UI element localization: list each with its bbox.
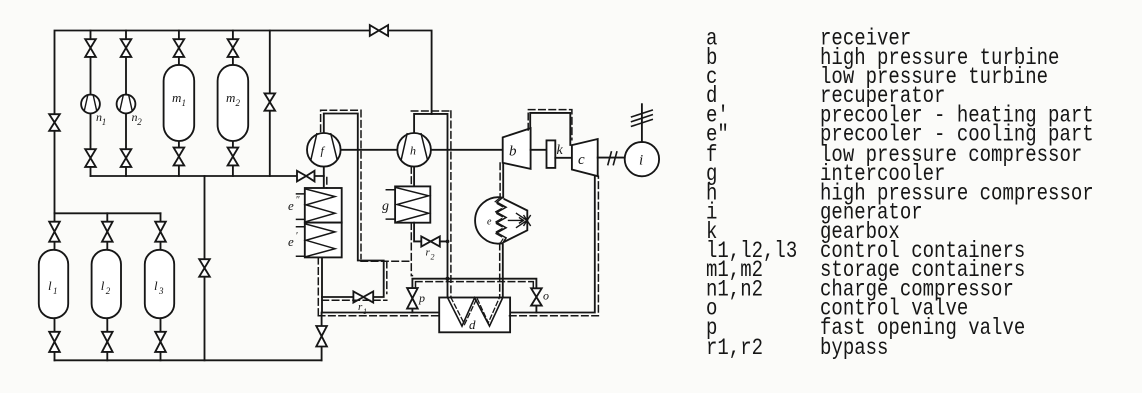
coupling ticks bbox=[608, 152, 617, 165]
valve n1 bottom bbox=[85, 149, 96, 158]
svg-text:2: 2 bbox=[431, 253, 435, 262]
valve l1 bottom bbox=[49, 332, 60, 342]
wire: storage manifold to f inlet bbox=[91, 175, 324, 177]
wire: l1 column bbox=[54, 213, 56, 360]
wire: exhaust line right of recuperator and c downcomer bbox=[510, 176, 595, 312]
svg-text:i: i bbox=[639, 153, 643, 169]
dashed beside h downpipe bbox=[410, 167, 412, 187]
valve on third riser bbox=[265, 93, 276, 102]
wire: m1 column bbox=[178, 31, 180, 177]
e spray symbol bbox=[509, 213, 531, 227]
high pressure compressor h bbox=[397, 133, 431, 167]
valve on left riser bbox=[49, 114, 60, 122]
valve at f inlet bbox=[297, 171, 306, 182]
dashed stub under f inlet bbox=[326, 178, 328, 189]
svg-text:l: l bbox=[48, 278, 52, 293]
wire: bypass r1 line bbox=[322, 114, 384, 298]
wire: bottom manifold bbox=[55, 359, 322, 361]
svg-text:1: 1 bbox=[363, 307, 367, 316]
recuperator d bbox=[439, 298, 510, 333]
valve l2 bottom bbox=[102, 332, 113, 342]
dashed beside b downpipe bbox=[499, 163, 501, 198]
valve n2 top bbox=[121, 39, 132, 48]
svg-text:g: g bbox=[382, 199, 389, 214]
e spray funnel bbox=[505, 199, 528, 242]
charge compressor n1 bbox=[81, 95, 100, 114]
svg-text:m: m bbox=[226, 90, 235, 105]
valve n2 bottom bbox=[121, 149, 132, 158]
e internal zigzag bbox=[497, 198, 506, 244]
svg-text:o: o bbox=[543, 289, 549, 303]
wire: riser from bottom manifold to precooler outlet bbox=[321, 257, 323, 360]
valve on top manifold bbox=[370, 25, 379, 36]
intercooler g bbox=[395, 186, 430, 222]
svg-text:1: 1 bbox=[102, 117, 107, 127]
valve n1 top bbox=[85, 39, 96, 48]
wire: g outlet to r2 and h-d line bbox=[414, 223, 447, 242]
generator i bbox=[625, 142, 659, 176]
svg-text:e: e bbox=[288, 234, 294, 249]
junction r2 tee bbox=[446, 240, 450, 244]
valve o bbox=[531, 288, 542, 297]
svg-text:1: 1 bbox=[182, 98, 187, 108]
combustor/precooler e body bbox=[475, 197, 502, 243]
storage container m1 bbox=[164, 65, 195, 141]
dashed e outlet bbox=[499, 243, 501, 297]
valve m2 top bbox=[228, 39, 239, 48]
svg-text:l: l bbox=[101, 278, 105, 293]
grid slashes bbox=[632, 110, 653, 126]
svg-text:″: ″ bbox=[296, 195, 300, 206]
svg-text:k: k bbox=[557, 143, 564, 158]
valve m1 top bbox=[174, 39, 185, 48]
wire: mid riser x=204 bbox=[204, 176, 206, 360]
valve on mid riser bbox=[199, 259, 210, 268]
precooler heating part e' bbox=[305, 223, 342, 258]
dashed below r1 line bbox=[322, 299, 387, 301]
valve m2 bottom bbox=[228, 148, 239, 157]
wire: f-h-b shaft line bbox=[341, 149, 503, 151]
wire: left riser + top manifold + drop to h-hat bbox=[55, 31, 432, 214]
valve on riser bbox=[316, 326, 327, 336]
gearbox k bbox=[547, 140, 556, 168]
wire: c to generator shaft bbox=[598, 157, 625, 159]
wire: m2 column bbox=[232, 31, 234, 177]
wire: n1 column bbox=[90, 31, 92, 177]
svg-text:b: b bbox=[509, 144, 517, 160]
dashed bypass drop right of r1 bbox=[386, 261, 388, 293]
wire: l3 column bbox=[160, 213, 162, 360]
valve r2 bbox=[421, 236, 430, 246]
svg-text:2: 2 bbox=[236, 98, 241, 108]
wire: fast-opening/control valve header bbox=[412, 279, 536, 313]
low pressure compressor f bbox=[307, 133, 341, 167]
svg-text:3: 3 bbox=[158, 286, 164, 296]
control container l2 bbox=[92, 250, 121, 318]
svg-text:m: m bbox=[172, 90, 181, 105]
high pressure turbine b bbox=[503, 128, 531, 169]
valve l1 top bbox=[49, 222, 60, 232]
valve r1 bbox=[353, 292, 363, 303]
wire: control-container manifold bbox=[55, 212, 161, 214]
valve l2 top bbox=[102, 222, 113, 232]
svg-text:2: 2 bbox=[106, 286, 111, 296]
svg-text:d: d bbox=[469, 317, 476, 332]
wire: gearbox to c bbox=[555, 157, 572, 159]
svg-text:2: 2 bbox=[137, 117, 142, 127]
dashed g outlet to p bbox=[411, 223, 412, 276]
control container l1 bbox=[39, 250, 68, 318]
wire: exhaust line left of recuperator bbox=[322, 312, 439, 314]
dashed charge loop over f bbox=[321, 110, 361, 258]
svg-text:e: e bbox=[487, 217, 492, 228]
dashed exhaust bottom line bbox=[318, 176, 598, 316]
valve p bbox=[407, 288, 418, 298]
wire: e outlet to recuperator bbox=[502, 243, 504, 297]
svg-text:1: 1 bbox=[53, 286, 58, 296]
storage container m2 bbox=[218, 65, 249, 141]
control container l3 bbox=[145, 250, 174, 318]
wire: b downpipe to combustor e bbox=[502, 163, 504, 198]
svg-text:p: p bbox=[418, 291, 425, 305]
valve l3 bottom bbox=[155, 332, 166, 342]
wire: third riser column bbox=[269, 31, 271, 177]
dashed h hat bbox=[411, 111, 451, 298]
svg-text:l: l bbox=[154, 278, 158, 293]
low pressure turbine c bbox=[572, 139, 598, 176]
precooler cooling part e" bbox=[305, 188, 342, 223]
wire: generator to grid bbox=[641, 104, 643, 142]
valve l3 top bbox=[155, 222, 166, 232]
charge compressor n2 bbox=[117, 95, 136, 114]
wire: h downpipe to intercooler bbox=[413, 167, 415, 187]
wire: b to gearbox bbox=[531, 149, 547, 151]
wire: duct from b to c bbox=[530, 113, 570, 145]
svg-text:h: h bbox=[410, 144, 416, 158]
wire: h hat and drop to recuperator bbox=[414, 114, 447, 298]
wire: f downpipe to precooler bbox=[323, 167, 325, 189]
junction on header bbox=[445, 277, 449, 281]
svg-text:′: ′ bbox=[296, 231, 298, 242]
dashed beside precooler outlet bbox=[317, 257, 319, 315]
svg-text:c: c bbox=[578, 152, 585, 168]
svg-text:e: e bbox=[288, 198, 294, 213]
wire: n2 column bbox=[125, 31, 127, 177]
valve m1 bottom bbox=[174, 148, 185, 157]
dashed below p-o header bbox=[416, 282, 534, 289]
wire: l2 column bbox=[106, 213, 108, 360]
dashed duct over gearbox bbox=[528, 110, 572, 140]
dashed zigzag through e bbox=[495, 198, 504, 244]
dashed link to g loop bbox=[361, 260, 412, 262]
